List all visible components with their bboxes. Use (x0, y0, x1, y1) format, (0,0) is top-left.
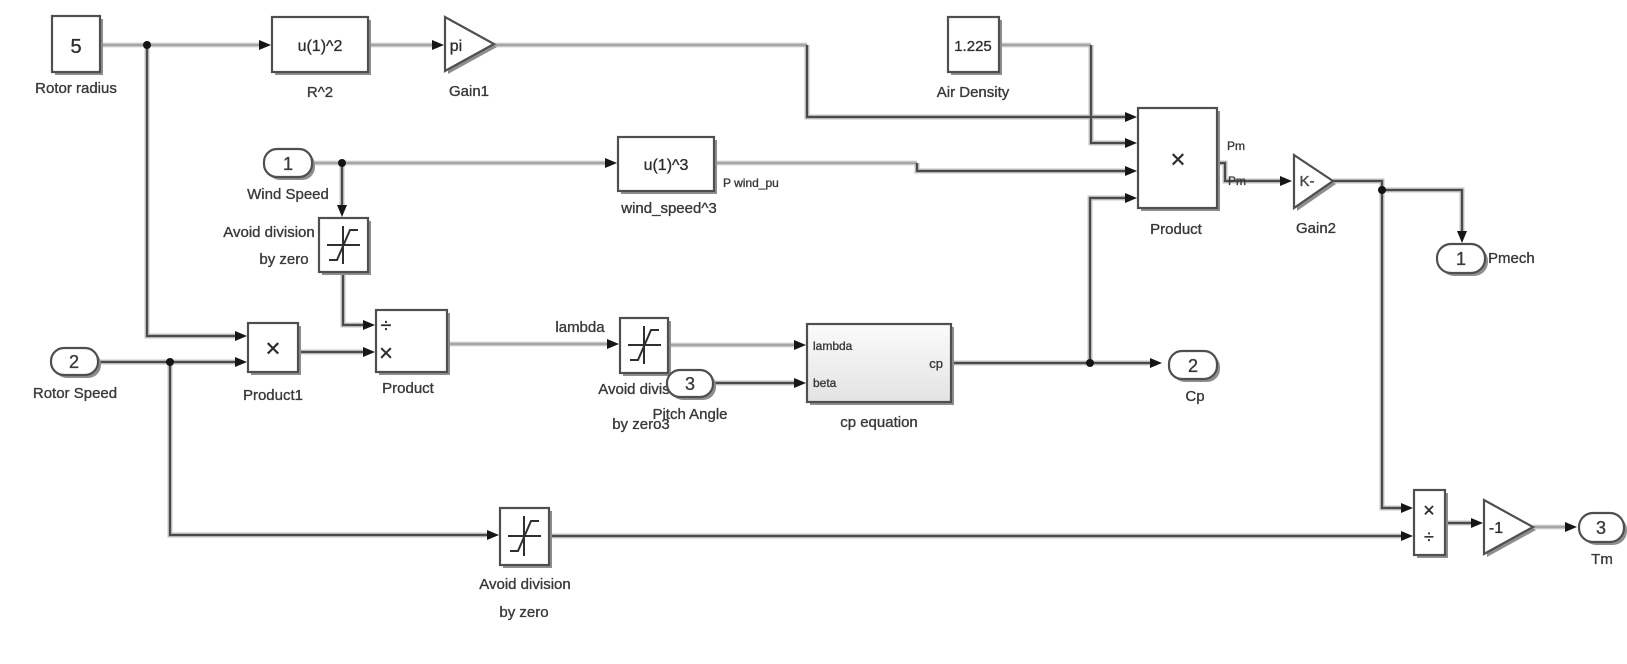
svg-text:Gain2: Gain2 (1296, 220, 1336, 237)
svg-text:×: × (1423, 500, 1435, 522)
svg-text:cp equation: cp equation (840, 414, 918, 431)
svg-text:÷: ÷ (381, 315, 392, 337)
svg-text:2: 2 (1188, 356, 1198, 376)
svg-text:Product1: Product1 (243, 387, 303, 404)
svg-text:×: × (379, 340, 393, 367)
svg-text:3: 3 (1596, 518, 1606, 538)
svg-text:Gain1: Gain1 (449, 83, 489, 100)
svg-text:u(1)^3: u(1)^3 (644, 157, 689, 174)
svg-text:beta: beta (813, 376, 837, 390)
svg-text:1: 1 (283, 154, 293, 174)
svg-text:1: 1 (1456, 249, 1466, 269)
svg-text:Rotor Speed: Rotor Speed (33, 385, 117, 402)
svg-text:Avoid division: Avoid division (479, 576, 570, 593)
svg-text:K-: K- (1300, 173, 1315, 190)
svg-text:×: × (1170, 144, 1185, 174)
svg-text:-1: -1 (1489, 520, 1503, 537)
svg-text:lambda: lambda (555, 319, 605, 336)
svg-text:cp: cp (929, 356, 943, 371)
svg-text:pi: pi (450, 38, 462, 55)
svg-text:3: 3 (685, 374, 695, 394)
svg-text:Rotor radius: Rotor radius (35, 80, 117, 97)
svg-text:Pm: Pm (1228, 174, 1246, 188)
svg-text:×: × (265, 333, 280, 363)
svg-text:u(1)^2: u(1)^2 (298, 38, 343, 55)
svg-text:Avoid division: Avoid division (223, 224, 314, 241)
svg-text:by zero: by zero (499, 604, 548, 621)
svg-text:Cp: Cp (1185, 388, 1204, 405)
svg-text:lambda: lambda (813, 339, 853, 353)
svg-text:Product: Product (1150, 221, 1203, 238)
svg-text:÷: ÷ (1424, 527, 1434, 547)
svg-text:1.225: 1.225 (954, 38, 992, 55)
svg-text:wind_speed^3: wind_speed^3 (620, 200, 716, 217)
svg-text:Pitch Angle: Pitch Angle (652, 406, 727, 423)
svg-text:R^2: R^2 (307, 84, 333, 101)
svg-text:Tm: Tm (1591, 551, 1613, 568)
svg-text:by zero: by zero (259, 251, 308, 268)
svg-text:5: 5 (70, 36, 81, 58)
svg-text:Air Density: Air Density (937, 84, 1010, 101)
svg-text:2: 2 (69, 352, 79, 372)
svg-text:Pm: Pm (1227, 139, 1245, 153)
svg-text:Pmech: Pmech (1488, 250, 1535, 267)
svg-text:Wind Speed: Wind Speed (247, 186, 329, 203)
svg-text:P wind_pu: P wind_pu (723, 176, 779, 190)
svg-text:Product: Product (382, 380, 435, 397)
